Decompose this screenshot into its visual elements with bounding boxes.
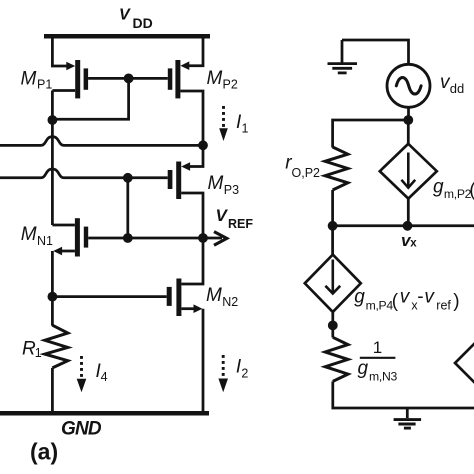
current arrow I2	[218, 355, 228, 392]
junction input2 / M_P3 gate dot	[123, 173, 133, 183]
pmos M_P2	[168, 60, 203, 145]
wire v_x to g_mP4 diamond	[331, 226, 334, 255]
svg-text:M: M	[21, 224, 37, 245]
junction gate mirror dot	[124, 74, 134, 84]
svg-text:g: g	[358, 358, 369, 379]
wire M_N1 gate to V_REF node	[88, 237, 203, 240]
label g_mP4 expression	[354, 286, 459, 312]
svg-text:x: x	[410, 238, 417, 250]
pmos M_P3	[168, 162, 203, 239]
resistor r_OP2	[325, 147, 348, 190]
junction below source	[403, 115, 413, 125]
svg-text:v: v	[424, 286, 435, 307]
wire resistor bottom to ground rail	[333, 381, 474, 408]
ac source v_dd	[387, 64, 430, 107]
label v_x	[401, 231, 417, 250]
junction M_P1 drain node	[48, 115, 58, 125]
wire left column M_P1 drain to M_N1 drain	[51, 91, 54, 226]
svg-text:O,P2: O,P2	[292, 166, 321, 180]
svg-text:P3: P3	[224, 183, 239, 197]
svg-text:(: (	[469, 180, 474, 201]
junction g_mP4 / resistor node	[328, 321, 338, 331]
wire g_mP4 bottom to resistor node	[331, 312, 334, 327]
label V_DD	[119, 7, 153, 31]
wire source node to g_mP2 diamond	[407, 120, 410, 144]
label M_P2	[207, 68, 238, 92]
label V_REF	[216, 206, 254, 231]
svg-text:M: M	[208, 173, 224, 194]
wire node to r_OP2	[333, 120, 409, 148]
junction v_x left	[328, 221, 338, 231]
svg-text:1: 1	[242, 122, 249, 136]
wire M_P3 gate column down to M_N1 gate	[126, 178, 129, 238]
nmos M_N1	[52, 218, 88, 256]
svg-text:v: v	[400, 286, 411, 307]
junction M_N1 gate wire dot	[123, 233, 133, 243]
dependent source g_mP2	[380, 144, 437, 199]
svg-text:1: 1	[373, 338, 382, 357]
svg-text:4: 4	[101, 370, 108, 384]
resistor R1	[45, 325, 68, 368]
svg-text:dd: dd	[450, 81, 464, 96]
wire M_P3 source from node	[190, 145, 204, 166]
svg-text:(a): (a)	[30, 439, 58, 465]
svg-text:-: -	[417, 286, 423, 307]
label I2	[236, 357, 249, 381]
wire diode connection gate to drain	[52, 78, 128, 119]
ground bottom (small-signal)	[394, 408, 422, 428]
label I1	[236, 112, 249, 136]
svg-text:g: g	[354, 286, 365, 307]
svg-text:GND: GND	[61, 419, 102, 440]
label r_OP2	[285, 152, 320, 179]
VDD power rail	[44, 34, 210, 39]
wire M_N2 source to GND	[202, 309, 205, 413]
wire M_N2 gate	[52, 295, 166, 298]
svg-text:m,N3: m,N3	[369, 370, 397, 384]
label R1	[22, 338, 42, 360]
svg-text:V: V	[119, 7, 131, 24]
resistor 1/g_mN3	[325, 337, 348, 381]
wire g_mP2 bottom to v_x rail	[407, 199, 410, 226]
label M_P3	[208, 173, 240, 197]
wire M_P1 source from VDD	[52, 36, 67, 66]
wire gate mirror M_P1 to M_P2	[88, 77, 168, 80]
svg-text:ref: ref	[436, 298, 451, 312]
svg-text:REF: REF	[228, 217, 253, 231]
svg-text:2: 2	[241, 366, 248, 380]
junction M_N2 gate node	[48, 292, 58, 302]
svg-text:N2: N2	[222, 295, 238, 309]
ground top (small-signal)	[328, 40, 358, 73]
svg-text:M: M	[207, 68, 223, 89]
svg-text:): )	[453, 291, 459, 312]
wire M_P2 source from VDD	[189, 36, 204, 66]
svg-text:V: V	[216, 206, 229, 225]
svg-text:M: M	[21, 69, 37, 90]
junction M_P2 drain node	[198, 140, 208, 150]
label M_P1	[21, 69, 53, 92]
wire M_N1 source down to M_N2 gate node and R1	[51, 251, 54, 326]
nmos M_N2	[167, 238, 203, 316]
svg-text:(: (	[392, 291, 399, 312]
wire input 1 with hop over left column	[0, 137, 203, 146]
current arrow I1	[219, 106, 228, 141]
dependent source g_mP4	[305, 255, 361, 312]
V_REF output arrow	[203, 232, 227, 246]
label v_dd	[440, 72, 464, 96]
svg-text:P1: P1	[37, 78, 52, 92]
svg-text:1: 1	[35, 346, 42, 360]
svg-text:M: M	[206, 285, 222, 306]
svg-text:DD: DD	[133, 15, 153, 31]
label M_N1	[21, 224, 53, 248]
wire r_OP2 bottom to v_x rail	[331, 190, 334, 226]
wire source bottom to node	[407, 107, 410, 122]
label M_N2	[206, 285, 238, 309]
label 1 over g_mN3	[358, 338, 398, 384]
wire node to resistor	[331, 325, 334, 337]
wire v_x rail	[333, 224, 474, 227]
junction V_REF node	[198, 233, 208, 243]
svg-text:m,P2: m,P2	[444, 187, 472, 201]
wire R1 to GND	[51, 368, 54, 413]
svg-text:N1: N1	[37, 234, 53, 248]
pmos M_P1	[52, 60, 88, 98]
svg-text:m,P4: m,P4	[366, 298, 394, 312]
current arrow I4	[77, 356, 87, 392]
svg-text:P2: P2	[223, 78, 238, 92]
wire input 2 with hop over left column	[0, 169, 168, 178]
wire ground to v_dd source	[342, 40, 409, 64]
svg-text:g: g	[433, 176, 444, 197]
label g_mP2 (clipped)	[433, 176, 474, 201]
junction v_x right	[403, 221, 413, 231]
GND rail	[0, 411, 209, 416]
label I4	[96, 361, 108, 384]
dependent source clipped at right edge	[455, 336, 474, 391]
